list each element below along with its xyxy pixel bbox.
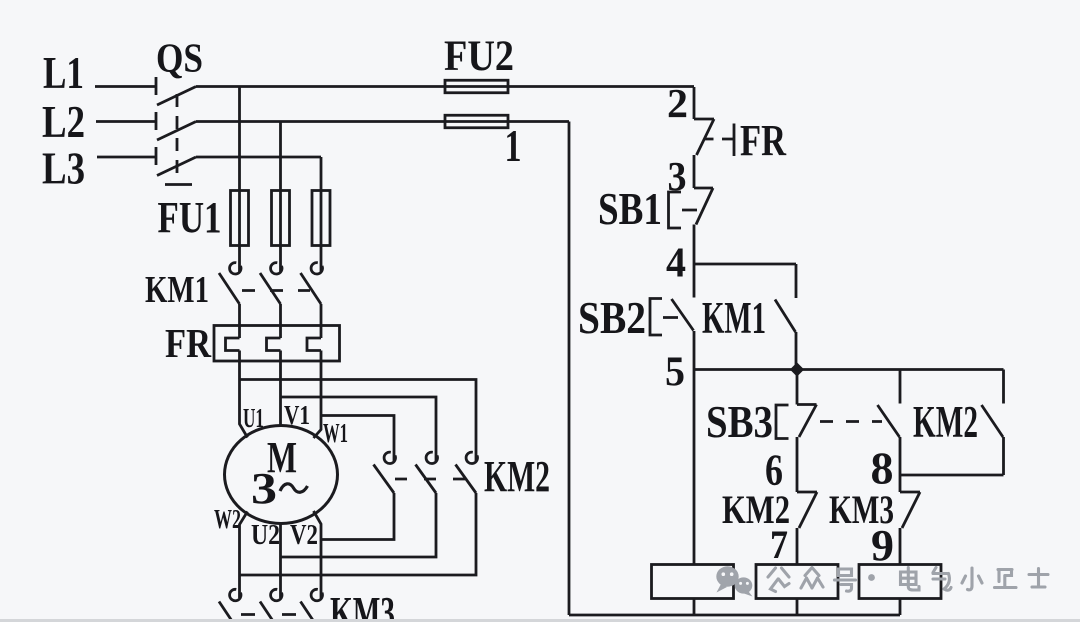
motor tilde [280,484,308,492]
wire FR to motor W1 [314,351,322,439]
contactor KM1 pole 1 hook [230,263,241,274]
node 5 junction dot [790,362,804,376]
coil KM3 [859,565,941,599]
wire L1 in [95,85,156,88]
svg-text:L1: L1 [43,48,84,98]
svg-text:FR: FR [165,320,211,366]
contactor KM1 pole 2 blade [260,273,281,304]
contactor KM2 pole 3 blade [456,465,477,494]
contactor KM3 pole 2 hook [271,589,282,600]
motor M circle [225,426,338,524]
watermark wechat icon [716,566,752,596]
button SB2 contact [650,264,694,370]
fuse FU2 top [445,80,508,93]
switch QS pole 1 blade [157,87,196,106]
svg-text:U1: U1 [243,403,264,433]
contactor KM1 pole 1 blade [219,273,240,304]
button SB3 NO contact [878,370,901,493]
left rail wire [568,122,571,616]
wire motor V2 down [314,511,322,598]
glyph shi [1029,569,1048,588]
wire KM1 coil branch [693,370,696,565]
coil KM1 [652,565,734,599]
glyph dian [901,568,920,591]
wire L3 out [196,156,321,159]
svg-text:W2: W2 [214,504,241,534]
node 5 wire [694,368,1004,371]
switch QS pole 2 blade [157,122,196,141]
contact KM2 aux branch [982,370,1004,476]
wire branch U1 to KM2 pole 3 [240,380,477,462]
contactor KM3 linkage dashes [241,613,296,616]
switch QS pole 1 tick [155,77,158,95]
glyph dot [868,574,875,581]
wire L3 in [97,156,156,159]
switch QS pole 2 tick [155,112,158,130]
contactor KM2 pole 1 hook [384,452,395,463]
svg-text:FU2: FU2 [444,33,514,80]
fuse FU1 pole 2 [272,191,290,246]
wire branch V1 to KM2 pole 2 [281,397,437,461]
watermark text [768,568,1048,592]
glyph hao [835,569,856,591]
svg-text:2: 2 [667,80,688,126]
coil KM2 bottom wire [796,599,799,616]
wire motor W2 down [240,512,248,599]
wire corner node 2 [693,87,696,119]
wire node 4 vertical [693,225,696,265]
button SB3 NC contact [776,370,817,493]
svg-text:SB2: SB2 [578,293,646,343]
svg-text:SB1: SB1 [598,184,662,234]
svg-text:W1: W1 [323,418,348,448]
contact KM3 NC [900,492,920,565]
contactor KM1 pole 2 hook [271,263,282,274]
fuse FU1 pole 1 [231,191,249,246]
contactor KM3 pole 3 blade [301,602,315,622]
fuse FU1 pole 3 [312,191,330,246]
contactor KM3 pole 1 hook [230,589,241,600]
svg-text:3: 3 [251,464,277,513]
coil KM1 bottom wire [693,599,696,616]
contact KM2 NC [797,492,817,565]
wire L2 in [96,120,156,123]
switch QS pole 3 tick [155,147,158,165]
button SB3 linkage dashes [820,420,882,423]
svg-text:KM3: KM3 [330,588,395,622]
svg-text:L2: L2 [42,97,85,147]
svg-text:QS: QS [156,35,203,81]
coil KM3 bottom wire [899,599,902,616]
contactor KM1 pole 3 hook [311,263,322,274]
contact KM1 aux [775,300,796,370]
svg-text:KM2: KM2 [484,452,550,501]
contactor KM3 pole 3 hook [311,589,322,600]
svg-text:V2: V2 [290,519,318,551]
button SB1 contact [669,188,714,228]
wire KM1 to FR pole 1 [238,304,241,338]
wire L2 out to left rail corner [196,120,569,123]
svg-text:FR: FR [740,116,787,165]
contactor KM2 pole 2 blade [416,465,437,494]
svg-text:U2: U2 [251,519,280,551]
svg-text:9: 9 [871,521,894,570]
relay FR heater 3 [307,338,321,351]
relay FR box [214,326,340,362]
contactor KM2 linkage dashes [395,478,465,481]
contactor KM3 pole 2 blade [260,602,274,622]
contactor KM3 pole 1 blade [219,602,233,622]
wire drop phase B [279,122,282,272]
wire motor U2 down [279,524,282,599]
glyph qi [933,568,951,591]
glyph zhong [801,568,823,589]
wire KM1 to FR pole 2 [279,304,282,338]
wire KM2 pole 2 to U2 [282,493,437,557]
relay contact FR [694,119,734,156]
wire node 4 branch [694,264,796,298]
wire branch W1 to KM2 pole 1 [321,416,394,462]
wire node 3 [693,155,696,188]
contactor KM2 pole 3 hook [466,452,477,463]
svg-text:4: 4 [666,241,686,287]
wire KM2 pole 3 to W2 [240,493,476,575]
wire KM2 pole 1 to V2 [322,493,394,540]
svg-text:KM1: KM1 [145,269,209,311]
contactor KM2 pole 2 hook [426,452,437,463]
wire drop phase A [238,87,241,272]
svg-text:5: 5 [665,350,685,396]
relay FR heater 1 [226,338,240,351]
contactor KM1 linkage dashes [242,289,310,292]
bottom gray band [0,619,1080,622]
svg-text:1: 1 [505,120,522,171]
svg-text:SB3: SB3 [706,397,773,447]
svg-text:8: 8 [871,443,894,494]
relay FR heater 2 [267,338,281,351]
contactor KM2 pole 1 blade [374,465,395,494]
wire L1 out to FU2 [196,85,694,88]
wire drop phase C [320,157,323,272]
glyph xiao [962,568,982,590]
wire FR to motor V1 [279,351,282,426]
node 8 wire [900,474,1004,477]
svg-text:L3: L3 [42,144,85,194]
svg-text:7: 7 [770,522,788,567]
wire KM1 to FR pole 3 [320,304,323,338]
coil KM2 [756,565,838,599]
contactor KM1 pole 3 blade [301,273,322,304]
fuse FU2 bottom [445,115,508,128]
switch QS linkage dashed [176,94,179,182]
svg-text:KM1: KM1 [702,293,766,343]
wire FR to motor U1 [240,351,248,438]
switch QS pole 3 blade [157,157,196,176]
svg-text:V1: V1 [284,400,310,430]
glyph gong [768,568,789,592]
switch QS handle bar [165,183,192,186]
glyph wei [995,570,1017,588]
bottom rail wire [569,614,900,617]
svg-text:FU1: FU1 [158,193,222,242]
svg-text:KM2: KM2 [913,397,978,447]
